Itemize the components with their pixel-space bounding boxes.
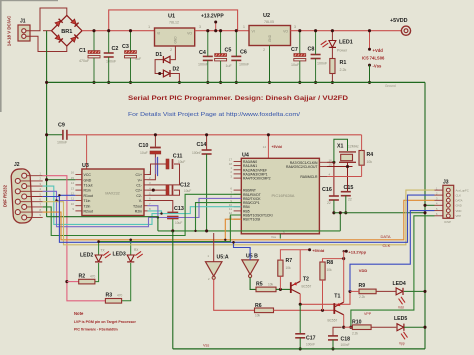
svg-text:C3: C3 xyxy=(122,44,129,50)
J2 pin leads xyxy=(27,175,43,177)
svg-text:U5 B: U5 B xyxy=(246,254,258,260)
svg-text:C13: C13 xyxy=(174,206,184,212)
LED LED3 xyxy=(127,255,134,262)
power flag +Vdd IC5 xyxy=(369,31,371,50)
svg-text:C11: C11 xyxy=(173,153,183,159)
wire C11 loop xyxy=(148,164,167,175)
svg-text:10k: 10k xyxy=(327,268,333,272)
svg-text:Power: Power xyxy=(337,49,348,53)
svg-text:C2: C2 xyxy=(112,46,119,52)
wire ground drop vertical left xyxy=(46,31,48,217)
+5V row wire xyxy=(67,134,361,136)
svg-text:C7: C7 xyxy=(291,47,298,53)
svg-text:-Vss: -Vss xyxy=(373,63,383,68)
U4 pin RB4 xyxy=(234,206,242,208)
svg-text:10k: 10k xyxy=(268,283,274,287)
capacitor C14 xyxy=(202,149,212,151)
screen edge shading xyxy=(0,0,2,112)
svg-text:BC557: BC557 xyxy=(302,285,312,289)
svg-text:VPP: VPP xyxy=(364,312,372,316)
wire C13 top to V- xyxy=(148,201,173,212)
wire blue branch to U5:B input xyxy=(234,242,251,249)
svg-text:X1: X1 xyxy=(337,144,343,150)
svg-text:3: 3 xyxy=(199,25,201,29)
svg-text:VI: VI xyxy=(157,32,160,36)
svg-text:100nF: 100nF xyxy=(192,151,201,155)
wire R10 row xyxy=(344,326,353,328)
capacitor C16 xyxy=(329,195,339,197)
wire R7 bottom xyxy=(279,276,281,289)
wire U5:A output to R6 xyxy=(214,279,255,310)
wire MCLR row to R4 xyxy=(327,176,362,178)
svg-text:10uF: 10uF xyxy=(291,63,300,67)
svg-text:T2out: T2out xyxy=(133,204,142,208)
bridge rectifier BR1 xyxy=(52,15,83,46)
wire +5V riser to U4 VDD pin14 xyxy=(267,135,269,159)
svg-text:+13.2Vpp: +13.2Vpp xyxy=(348,250,366,255)
svg-text:C14: C14 xyxy=(197,142,207,148)
svg-text:LED1: LED1 xyxy=(339,40,353,46)
U3 pin T2in xyxy=(75,205,82,207)
svg-text:BC557: BC557 xyxy=(328,319,338,323)
svg-text:C1-: C1- xyxy=(136,184,142,188)
svg-text:RA5/MCLR: RA5/MCLR xyxy=(300,175,318,179)
J2 pin circle right 0 xyxy=(22,173,27,178)
transistor T2 xyxy=(290,282,292,293)
capacitor C18 xyxy=(328,335,338,337)
wire teal branch to U4 RB4 xyxy=(162,207,242,214)
wire OSC1 bypass over crystal xyxy=(334,139,348,162)
svg-text:10uF: 10uF xyxy=(140,151,148,155)
resistor R5 xyxy=(256,287,276,292)
wire purple stub U3 T2out xyxy=(148,206,158,218)
capacitor C12 xyxy=(166,185,169,195)
svg-text:PIC16F628A: PIC16F628A xyxy=(272,193,295,198)
wire C16 top xyxy=(333,162,335,196)
svg-text:2.2k: 2.2k xyxy=(352,332,358,336)
svg-text:+5VDD: +5VDD xyxy=(390,18,408,24)
U4 pin RB1/RX/DT xyxy=(234,193,242,195)
svg-text:R2out: R2out xyxy=(84,210,93,214)
U3 pin R2out xyxy=(75,210,82,212)
svg-text:LED5: LED5 xyxy=(394,316,407,322)
svg-text:470: 470 xyxy=(90,275,96,279)
svg-text:C8: C8 xyxy=(308,47,315,53)
svg-text:78L05: 78L05 xyxy=(264,20,274,24)
LED LED2 xyxy=(95,255,102,262)
wire U5:B input from CLK xyxy=(249,248,251,260)
svg-text:10k: 10k xyxy=(286,266,292,270)
svg-text:RA6/OSC2/CLKOUT: RA6/OSC2/CLKOUT xyxy=(286,165,317,169)
svg-text:C4: C4 xyxy=(199,50,206,56)
LED LED5 xyxy=(397,324,404,331)
svg-text:100nF: 100nF xyxy=(106,60,117,64)
wire bridge left corner to ground drop xyxy=(43,30,52,32)
svg-text:U2: U2 xyxy=(263,13,270,19)
wire pink DTR from J2 pin1 xyxy=(43,176,106,301)
J3 pin 1 AuxLupFC xyxy=(446,188,450,192)
svg-text:C2+: C2+ xyxy=(135,189,142,193)
svg-text:GND: GND xyxy=(456,204,462,208)
wire crystal gnd drop to logic ground line xyxy=(339,213,341,231)
U3 pin C2+ xyxy=(144,189,148,191)
svg-text:C10: C10 xyxy=(139,143,149,149)
U3 pin C1- xyxy=(144,184,148,186)
wire U2 GND to ground rail xyxy=(269,46,271,83)
svg-text:Vss: Vss xyxy=(271,235,277,239)
inverter U5:B xyxy=(242,260,259,275)
svg-text:+13.2VPP: +13.2VPP xyxy=(201,14,224,20)
svg-text:R1in: R1in xyxy=(84,189,91,193)
resistor R7 xyxy=(278,260,283,276)
wire J1 top pin loop to bridge top xyxy=(26,8,67,31)
U4 pin RA0/AN0 xyxy=(234,161,242,163)
resistor R10 xyxy=(352,325,371,330)
svg-text:BR1: BR1 xyxy=(61,29,72,35)
J2 pin circle right 3 xyxy=(22,204,27,209)
svg-text:22: 22 xyxy=(348,198,352,202)
svg-text:VPP: VPP xyxy=(456,214,462,218)
U4 pin RA6/OSC2/CLKOUT xyxy=(319,166,327,168)
wire top bypass rail y10 xyxy=(109,10,238,31)
wire LED4 cathode to green return xyxy=(404,290,425,292)
svg-text:14-18 V DC/AC: 14-18 V DC/AC xyxy=(7,15,12,46)
svg-text:78L12: 78L12 xyxy=(169,21,179,25)
svg-text:+Vdd: +Vdd xyxy=(373,48,384,53)
J3 pin 4 GND xyxy=(446,203,450,207)
svg-text:T1out: T1out xyxy=(84,184,93,188)
bottom ground rail Vss xyxy=(173,348,425,350)
svg-text:C1+: C1+ xyxy=(135,173,142,177)
svg-text:RA4/T0CKI/CMP2: RA4/T0CKI/CMP2 xyxy=(243,177,271,181)
wire blue stub near C10 xyxy=(157,157,159,176)
wire LED2 to R2 xyxy=(95,263,99,282)
wire U2 output rail +5V xyxy=(291,30,402,32)
resistor R4 xyxy=(359,151,364,166)
svg-text:J3: J3 xyxy=(443,180,449,186)
svg-text:14: 14 xyxy=(71,181,75,185)
wire green logic ground line xyxy=(158,230,340,232)
U4 pin RB3/CCP1 xyxy=(234,202,242,204)
svg-text:T2in: T2in xyxy=(84,204,91,208)
svg-text:For Details Visit Project Page: For Details Visit Project Page at http:/… xyxy=(128,112,301,118)
svg-text:LED2: LED2 xyxy=(80,253,93,259)
svg-text:16: 16 xyxy=(71,171,75,175)
wire pink branch to R2 xyxy=(67,281,79,283)
capacitor C6 xyxy=(231,55,241,57)
svg-text:1: 1 xyxy=(243,25,245,29)
power flag -Vss IC5 xyxy=(368,64,371,67)
svg-text:J1: J1 xyxy=(20,19,26,25)
wire R5 to T2 base xyxy=(276,288,291,290)
svg-text:CLK: CLK xyxy=(456,193,462,197)
U3 pin V+ xyxy=(144,179,148,181)
U4 pin RA2/AN2/VREF xyxy=(234,169,242,171)
wire OSC2 row xyxy=(327,166,353,168)
wire C9 to ground vertical xyxy=(47,134,63,136)
U3 pin C2- xyxy=(144,194,148,196)
svg-text:+5Vdd: +5Vdd xyxy=(312,248,325,253)
svg-text:100nF: 100nF xyxy=(198,63,209,67)
wire left drop of bottom rail xyxy=(172,231,174,349)
U4 pin RA4/T0CKI/CMP2 xyxy=(234,177,242,179)
svg-text:10uF: 10uF xyxy=(178,160,185,164)
svg-text:R7: R7 xyxy=(286,258,293,264)
svg-text:R2: R2 xyxy=(79,274,86,280)
svg-text:VDD: VDD xyxy=(456,209,462,213)
wire C10 bottom to V+ xyxy=(148,154,156,180)
svg-text:100nF: 100nF xyxy=(57,141,68,145)
capacitor C8 xyxy=(311,54,321,56)
wire T1 collector to R10 row xyxy=(343,315,345,327)
svg-text:C1: C1 xyxy=(79,48,86,54)
wire blue stub to U3 R1OUT xyxy=(59,194,75,196)
U4 pin RA1/AN1 xyxy=(234,165,242,167)
J3 pin 3 DATA xyxy=(446,198,450,202)
wire purple from J2 pin4 to U4 RB2 xyxy=(43,191,242,226)
wire C14 top xyxy=(206,135,208,150)
svg-text:DATA: DATA xyxy=(381,234,391,239)
svg-text:GND: GND xyxy=(268,34,272,42)
U4 pin RB7/T1OSI xyxy=(234,218,242,220)
J3 pin 5 VDD xyxy=(446,209,450,213)
wire C13 bottom xyxy=(172,219,174,231)
wire ground jog from left vertical xyxy=(47,217,158,231)
wire ground rail drop to J3 area xyxy=(424,82,426,349)
svg-text:GND: GND xyxy=(174,36,178,44)
svg-text:C6: C6 xyxy=(240,50,247,56)
U4 pin RA5/MCLR xyxy=(319,176,327,178)
J2 pin circle left 2 xyxy=(15,199,20,204)
wire LED3 to R3 xyxy=(122,263,131,301)
svg-text:14: 14 xyxy=(263,145,267,149)
wire orange branch to U4 RB7 xyxy=(225,219,241,240)
svg-text:GND: GND xyxy=(84,178,92,182)
svg-text:D9F RS232: D9F RS232 xyxy=(3,184,8,207)
J2 pin circle right 2 xyxy=(22,194,27,199)
wire U1 GND to D1 xyxy=(171,46,176,60)
svg-text:MAX232: MAX232 xyxy=(105,192,120,196)
wire R6 to T1 base xyxy=(274,309,335,311)
wire D2 cathode to ground xyxy=(170,74,179,83)
connector J1 xyxy=(18,25,30,41)
svg-text:10k: 10k xyxy=(367,160,373,164)
wire C5 leads xyxy=(220,31,222,54)
resistor R8 xyxy=(320,262,325,280)
wire T2 collector VDD net xyxy=(300,291,350,304)
capacitor C11 xyxy=(166,159,169,169)
J2 pin circle right 1 xyxy=(22,184,27,189)
LED LED4 xyxy=(396,288,403,295)
svg-text:22: 22 xyxy=(327,201,331,205)
svg-text:3: 3 xyxy=(294,25,296,29)
wire C17 bottom xyxy=(299,338,301,349)
resistor R3 xyxy=(105,299,121,304)
svg-text:T1: T1 xyxy=(334,294,340,300)
svg-text:C17: C17 xyxy=(306,336,316,342)
svg-text:13: 13 xyxy=(71,186,75,190)
U3 pin R1out xyxy=(75,194,82,196)
LED LED1 xyxy=(329,41,336,48)
svg-text:10uF: 10uF xyxy=(184,189,191,193)
resistor R1 xyxy=(330,59,335,74)
resistor R2 xyxy=(79,279,95,284)
wire C2 leads xyxy=(108,31,110,53)
svg-text:T1in: T1in xyxy=(84,199,91,203)
U4 pin RB0/INT xyxy=(234,189,242,191)
wire raw DC rail y31 xyxy=(82,30,155,32)
wire C15 bottom xyxy=(345,196,347,213)
svg-text:2.2k: 2.2k xyxy=(359,295,365,299)
U4 pin RB2/TX/CK xyxy=(234,197,242,199)
wire purple stub near C10 xyxy=(155,158,157,175)
wire U5:B output to R5 xyxy=(250,278,256,290)
svg-text:U5:A: U5:A xyxy=(217,255,229,261)
wire C18 top from R10 row xyxy=(333,327,342,336)
svg-text:Vss: Vss xyxy=(203,344,209,348)
svg-text:VCC: VCC xyxy=(84,173,92,177)
svg-text:12MHz: 12MHz xyxy=(348,145,359,149)
wire C14 bottom xyxy=(206,154,208,231)
wire C8 leads xyxy=(315,31,317,55)
wire blue CLK from J2 pin5 to J3 pin2 xyxy=(43,195,435,242)
capacitor C15 xyxy=(341,191,351,193)
J2 pin circle right 4 xyxy=(22,215,27,220)
svg-text:C16: C16 xyxy=(322,187,332,193)
svg-text:C5: C5 xyxy=(225,48,232,54)
wire blue VDD to J3 pin5 xyxy=(350,211,435,292)
wire U3 GND to ground vertical xyxy=(47,179,76,181)
svg-text:R8: R8 xyxy=(327,260,334,266)
svg-text:100nF: 100nF xyxy=(317,62,328,66)
svg-text:D1: D1 xyxy=(156,52,163,58)
wire LED2 drop xyxy=(98,242,100,255)
wire C10 top xyxy=(154,135,156,147)
wire C6 leads xyxy=(235,31,237,57)
svg-text:V+: V+ xyxy=(138,178,142,182)
svg-text:100nF: 100nF xyxy=(239,63,250,67)
svg-text:10k: 10k xyxy=(255,314,261,318)
U3 pin T1out xyxy=(75,184,82,186)
svg-text:1: 1 xyxy=(148,25,150,29)
svg-text:R3: R3 xyxy=(106,293,113,299)
svg-text:Vpp: Vpp xyxy=(399,342,405,346)
J2 pin circle left 3 xyxy=(15,210,20,215)
wire riser to U3 VCC xyxy=(86,135,88,169)
svg-text:AuxLupFC: AuxLupFC xyxy=(456,188,469,192)
U3 pin VCC xyxy=(75,174,82,176)
connector J2 DB9 body xyxy=(11,169,33,224)
svg-text:T2: T2 xyxy=(303,277,309,283)
ground rail top xyxy=(47,81,425,83)
inverter U5:A xyxy=(205,262,222,277)
resistor R6 xyxy=(255,308,274,313)
wire crystal bottom to OSC2 row xyxy=(347,162,349,167)
svg-text:U3: U3 xyxy=(82,163,89,169)
svg-text:LED3: LED3 xyxy=(113,252,126,258)
svg-text:IC5 74LS06: IC5 74LS06 xyxy=(362,56,385,61)
wire C18 bottom xyxy=(332,340,334,349)
U3 pin T2out xyxy=(144,205,148,207)
wire orange branch to LED3 xyxy=(130,240,132,255)
U3 pin R1in xyxy=(75,189,82,191)
svg-text:C18: C18 xyxy=(341,336,351,342)
svg-text:R9: R9 xyxy=(359,283,366,289)
wire green L4 from J2 pin7 to U4 RB1 xyxy=(43,194,242,235)
wire purple stub to U3 T1in xyxy=(57,200,76,202)
svg-text:LVP is PGM pin on Target Proce: LVP is PGM pin on Target Processor xyxy=(74,320,137,324)
wire crystal ground line to J3 ground drop xyxy=(334,212,425,214)
U4 pin RA7/OSC1/CLKIN xyxy=(319,161,327,163)
wire R4 top to +5 row xyxy=(361,135,363,151)
svg-text:R1out: R1out xyxy=(84,194,93,198)
svg-text:DATA: DATA xyxy=(456,199,463,203)
svg-text:C9: C9 xyxy=(58,123,65,129)
capacitor C13 xyxy=(167,212,178,214)
svg-text:C12: C12 xyxy=(180,183,190,189)
svg-text:C2-: C2- xyxy=(136,194,142,198)
svg-text:100nF: 100nF xyxy=(306,343,315,347)
wire J3 GND pin to ground drop xyxy=(425,204,435,206)
svg-text:+5Vdd: +5Vdd xyxy=(272,145,282,149)
svg-text:CLK: CLK xyxy=(383,243,391,248)
capacitor C17 xyxy=(295,333,305,335)
J3 pin 6 VPP xyxy=(446,214,450,218)
wire C4 leads xyxy=(207,31,209,57)
svg-text:Ground: Ground xyxy=(385,84,396,88)
wire OSC1 row xyxy=(327,161,334,163)
svg-text:1uF: 1uF xyxy=(226,64,233,68)
svg-text:U1: U1 xyxy=(168,14,175,20)
U4 Vss pin bottom xyxy=(279,234,281,239)
svg-text:Vdd: Vdd xyxy=(398,306,404,310)
svg-text:VO: VO xyxy=(187,32,192,36)
U3 pin R2in xyxy=(144,210,148,212)
svg-text:10: 10 xyxy=(71,202,75,206)
U3 pin GND xyxy=(75,179,82,181)
svg-text:10uF: 10uF xyxy=(175,221,182,225)
svg-text:100nF: 100nF xyxy=(341,343,350,347)
wire R8 bottom to base row xyxy=(322,280,324,310)
wire C17 top xyxy=(299,304,301,334)
svg-text:Serial Port PIC Programmer. D: Serial Port PIC Programmer. Design: Dine… xyxy=(128,95,348,102)
wire R7 top to +5Vdd flag xyxy=(280,250,309,260)
svg-text:PIC firmware - FSerialdtm: PIC firmware - FSerialdtm xyxy=(74,328,118,332)
wire C7 leads xyxy=(299,31,301,54)
J2 pin circle left 1 xyxy=(15,189,20,194)
wire C12 loop xyxy=(148,189,167,191)
svg-text:R1: R1 xyxy=(340,60,347,66)
svg-text:LED4: LED4 xyxy=(393,281,406,287)
capacitor C9 xyxy=(62,130,64,140)
svg-text:2: 2 xyxy=(263,48,265,52)
wire teal from J2 pin3 to U3 R2in xyxy=(43,186,162,224)
U4 pin RA3/AN3/CMP1 xyxy=(234,173,242,175)
wire U5:A input xyxy=(213,233,215,262)
U4 pin RB5 xyxy=(234,210,242,212)
wire U1 output lead xyxy=(195,30,238,32)
U3 pin T1in xyxy=(75,200,82,202)
wire R8 top to +13.2Vpp xyxy=(323,259,344,262)
wire U2 input lead xyxy=(238,30,249,32)
resistor R9 xyxy=(359,289,376,294)
wire C16 bottom xyxy=(333,200,335,213)
svg-text:C15: C15 xyxy=(344,185,354,191)
svg-text:R2in: R2in xyxy=(135,210,142,214)
svg-text:RB7/T1OSI: RB7/T1OSI xyxy=(243,218,260,222)
svg-text:VDD: VDD xyxy=(359,268,368,273)
wire T1 emitter to +13.2Vpp xyxy=(343,251,345,302)
